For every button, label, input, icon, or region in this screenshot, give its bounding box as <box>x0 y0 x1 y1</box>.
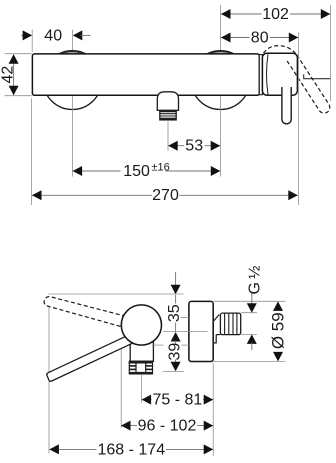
dimension 35 <box>175 272 177 287</box>
dimension dia 59 <box>273 301 283 311</box>
extension line 102 right <box>330 5 332 101</box>
dimension texts top view <box>0 6 289 204</box>
dimension 150 +-16 <box>73 170 121 172</box>
handle pin (down position) <box>282 87 291 124</box>
supply cone <box>213 315 219 322</box>
svg-text:Ø 59: Ø 59 <box>268 312 287 349</box>
svg-text:150: 150 <box>123 163 150 180</box>
svg-text:42: 42 <box>0 66 16 84</box>
dimension 39 <box>175 341 177 344</box>
svg-text:39: 39 <box>167 343 184 361</box>
svg-text:270: 270 <box>152 187 179 204</box>
shower outlet dome <box>157 92 178 111</box>
dimension 53 <box>168 145 184 147</box>
centerline right escutcheon lower part <box>220 96 222 177</box>
extension line lever tip <box>48 306 50 454</box>
dia 59 reference bottom <box>213 361 285 363</box>
mixer body bar <box>32 54 259 95</box>
shower outlet thread <box>160 110 176 120</box>
dimension 75-81 <box>142 399 152 401</box>
G1/2 reference bottom <box>241 334 257 336</box>
outlet centerline <box>141 374 143 402</box>
dimension 80 <box>221 37 250 39</box>
tick 35 to disc <box>181 316 189 318</box>
svg-text:168 - 174: 168 - 174 <box>97 441 165 458</box>
dimension 96-102 <box>121 425 137 427</box>
dia 59 reference top <box>213 300 285 302</box>
dimension 40 <box>21 34 24 36</box>
centerline right escutcheon (upper part) <box>220 5 222 52</box>
outlet foot with hose thread <box>129 361 152 374</box>
svg-text:80: 80 <box>251 30 269 47</box>
leader from dashed handle to 102 extension <box>304 74 331 78</box>
extension line 42 bottom <box>5 95 32 97</box>
outlet neck (side) <box>130 334 153 361</box>
G1/2 thread block <box>220 313 240 335</box>
adapter ring between body and handle base <box>259 55 262 95</box>
svg-text:35: 35 <box>166 304 183 322</box>
knob circle <box>121 305 161 345</box>
dimension 270 <box>32 194 152 196</box>
dashed cap sweep arc <box>264 46 297 55</box>
gray sliver of left escutcheon above body <box>61 52 84 54</box>
svg-text:96 - 102: 96 - 102 <box>138 418 197 435</box>
escutcheon circle left <box>43 51 102 110</box>
centerline left escutcheon lower part <box>71 96 73 177</box>
extension line 42 top <box>5 53 32 55</box>
dimension G 1/2 <box>251 294 253 306</box>
wall escutcheon disc (side) <box>189 301 213 361</box>
tick 39 to disc <box>152 344 164 346</box>
pipe axis reference line <box>163 331 208 333</box>
wall plane extension <box>212 363 214 456</box>
dimension 42 <box>13 55 15 96</box>
dimension 168-174 <box>49 448 96 450</box>
solid lever (down position) <box>47 333 136 381</box>
handle base cap <box>262 53 297 95</box>
dimension texts bottom view <box>97 266 287 459</box>
extension line body left edge above <box>31 30 33 53</box>
G1/2 reference top <box>241 312 257 314</box>
dashed handle swung position (top view) <box>287 55 330 113</box>
svg-text:G ½: G ½ <box>247 266 264 295</box>
centerline left escutcheon <box>71 30 73 52</box>
dimension 102 <box>221 13 262 15</box>
escutcheon circle right <box>191 51 250 110</box>
svg-text:53: 53 <box>185 138 203 155</box>
extension line 80/270 right <box>297 33 299 206</box>
shared arrow 35/39 <box>171 332 181 342</box>
supply pipe tab <box>213 335 216 343</box>
extension line 270 left <box>31 99 33 206</box>
svg-text:40: 40 <box>44 27 62 44</box>
reference line outlet bottom <box>163 370 185 372</box>
dashed lever (up position) <box>44 297 126 328</box>
svg-text:75 - 81: 75 - 81 <box>152 392 202 409</box>
extension line knob front <box>120 348 122 429</box>
handle base inner curve <box>267 54 269 94</box>
svg-text:102: 102 <box>262 6 289 23</box>
gray sliver of right escutcheon above body <box>209 52 232 54</box>
outlet centerline <box>167 122 169 151</box>
svg-text:±16: ±16 <box>152 162 170 174</box>
reference line top of lever (35 ref) <box>49 293 184 295</box>
